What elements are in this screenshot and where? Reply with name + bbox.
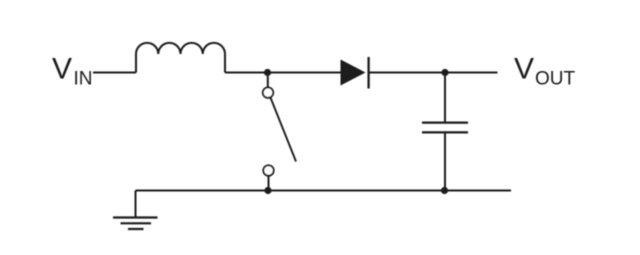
node output junction bbox=[441, 69, 448, 76]
wire ground lead bbox=[135, 191, 137, 218]
label VOUT bbox=[514, 52, 576, 89]
svg-text:OUT: OUT bbox=[535, 68, 576, 89]
switch S1 bbox=[263, 76, 296, 188]
node capacitor-bottom junction bbox=[441, 187, 448, 194]
node switch-bottom junction bbox=[264, 187, 271, 194]
svg-text:V: V bbox=[514, 52, 534, 85]
label VIN bbox=[52, 52, 93, 89]
inductor L1 bbox=[136, 43, 225, 73]
wire VIN lead bbox=[93, 72, 136, 74]
svg-text:IN: IN bbox=[74, 69, 93, 90]
svg-text:V: V bbox=[52, 52, 72, 85]
capacitor C1 bbox=[422, 73, 468, 191]
wire inductor to diode anode bbox=[225, 72, 341, 74]
diode D1 bbox=[341, 57, 369, 89]
wire bottom rail bbox=[136, 190, 512, 192]
wire diode cathode to VOUT bbox=[370, 72, 498, 74]
ground bbox=[113, 218, 158, 230]
node switch-top junction bbox=[264, 69, 271, 76]
